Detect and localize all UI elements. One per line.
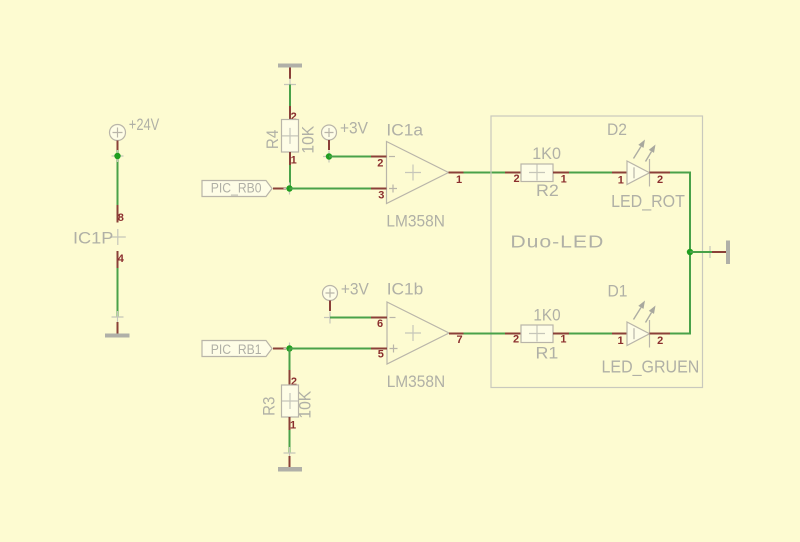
junction +3V node	[326, 153, 332, 159]
wire R4 pin1 to PIC_RB0 junction	[289, 165, 291, 189]
supply +3V upper	[322, 119, 369, 150]
svg-text:R1: R1	[536, 343, 559, 363]
svg-text:LM358N: LM358N	[387, 372, 445, 391]
op-amp IC1b LM358N	[371, 278, 464, 391]
wire R3 pin1 to GND4	[289, 430, 291, 453]
svg-text:+3V: +3V	[341, 280, 369, 299]
op-amp power IC1P	[73, 205, 126, 268]
svg-text:PIC_RB1: PIC_RB1	[211, 341, 262, 357]
resistor R2 1K0	[505, 144, 569, 200]
svg-text:IC1a: IC1a	[386, 119, 423, 139]
svg-text:1: 1	[618, 174, 624, 186]
net label PIC_RB0	[202, 180, 286, 197]
wire R1 to D1	[569, 333, 612, 335]
svg-text:2: 2	[657, 174, 663, 186]
wire PIC_RB1 junction down to R3	[289, 349, 291, 371]
svg-text:6: 6	[377, 318, 383, 330]
svg-text:+3V: +3V	[340, 119, 368, 138]
svg-text:R4: R4	[263, 130, 282, 149]
svg-text:4: 4	[118, 253, 125, 265]
resistor R1 1K0	[505, 306, 569, 363]
svg-text:2: 2	[513, 173, 519, 185]
LED D1 LED_GRUEN	[602, 282, 700, 377]
svg-text:2: 2	[657, 335, 663, 347]
wire +3V to IC1b pin6	[330, 317, 371, 319]
svg-text:D1: D1	[608, 282, 628, 301]
wire junction to GND3	[690, 251, 712, 253]
pin cross at +24V junction	[112, 150, 124, 162]
LED D2 LED_ROT	[607, 120, 685, 211]
svg-text:PIC_RB0: PIC_RB0	[211, 180, 262, 196]
svg-text:LED_GRUEN: LED_GRUEN	[602, 357, 700, 377]
svg-text:+24V: +24V	[129, 115, 159, 134]
svg-text:2: 2	[513, 334, 519, 346]
junction PIC_RB1 node	[286, 345, 292, 351]
wire IC1P pin4 to ground	[117, 268, 119, 317]
svg-text:D2: D2	[607, 120, 627, 139]
svg-text:Duo-LED: Duo-LED	[510, 232, 604, 252]
svg-text:R2: R2	[536, 180, 559, 200]
junction right node	[687, 249, 693, 255]
svg-text:1K0: 1K0	[532, 144, 561, 163]
wire net +24V vertical	[117, 150, 119, 205]
wire +3V to IC1a pin2	[329, 156, 371, 158]
ground GND1 below IC1P	[105, 311, 130, 338]
wire PIC_RB1 to IC1b pin5	[290, 348, 372, 350]
svg-text:LED_ROT: LED_ROT	[611, 191, 685, 211]
svg-text:IC1P: IC1P	[73, 228, 113, 247]
junction PIC_RB0 node	[286, 185, 292, 191]
supply +3V lower	[323, 280, 370, 311]
frame Duo-LED box	[491, 116, 703, 388]
svg-text:1K0: 1K0	[533, 306, 560, 325]
svg-text:1: 1	[561, 173, 567, 185]
ground GND3 right	[712, 241, 730, 265]
wire GND2 to R4	[289, 85, 291, 107]
svg-text:1: 1	[291, 155, 297, 167]
svg-text:1: 1	[456, 174, 462, 186]
wire IC1b output to R1	[464, 333, 506, 335]
ground GND2 above R4	[278, 64, 302, 91]
svg-text:5: 5	[378, 349, 384, 361]
wire PIC_RB0 to IC1a pin3	[290, 188, 372, 190]
svg-text:1: 1	[560, 334, 566, 346]
pin cross at GND3	[704, 246, 716, 258]
svg-text:1: 1	[290, 420, 296, 432]
pin cross at +3V lower pin end	[324, 312, 336, 324]
svg-text:2: 2	[377, 158, 383, 170]
svg-text:LM358N: LM358N	[386, 212, 444, 231]
D2 light emission arrows	[634, 147, 642, 159]
D1 light emission arrows	[634, 308, 642, 320]
resistor R4 10K	[263, 106, 317, 167]
svg-text:3: 3	[378, 190, 384, 202]
svg-text:R3: R3	[260, 397, 279, 416]
pin cross at +3V junction	[323, 151, 335, 163]
net label PIC_RB1	[202, 341, 286, 358]
junction +24V	[114, 153, 120, 159]
op-amp IC1a LM358N	[371, 119, 464, 230]
svg-text:8: 8	[118, 212, 124, 224]
svg-text:IC1b: IC1b	[387, 278, 424, 298]
resistor R3 10K	[260, 370, 315, 432]
pin cross at PIC_RB0 junction	[284, 183, 296, 195]
svg-text:10K: 10K	[296, 391, 315, 419]
svg-text:10K: 10K	[299, 126, 318, 154]
pin cross at PIC_RB1 junction	[284, 343, 296, 355]
wire IC1a output to R2	[464, 172, 506, 174]
svg-text:1: 1	[617, 335, 623, 347]
svg-text:7: 7	[457, 334, 463, 346]
wire D2 to right vertical	[670, 173, 690, 253]
ground GND4 below R3	[278, 447, 302, 472]
wire R2 to D2	[569, 172, 612, 174]
supply +24V	[110, 115, 160, 150]
wire D1 to right vertical	[670, 252, 690, 334]
